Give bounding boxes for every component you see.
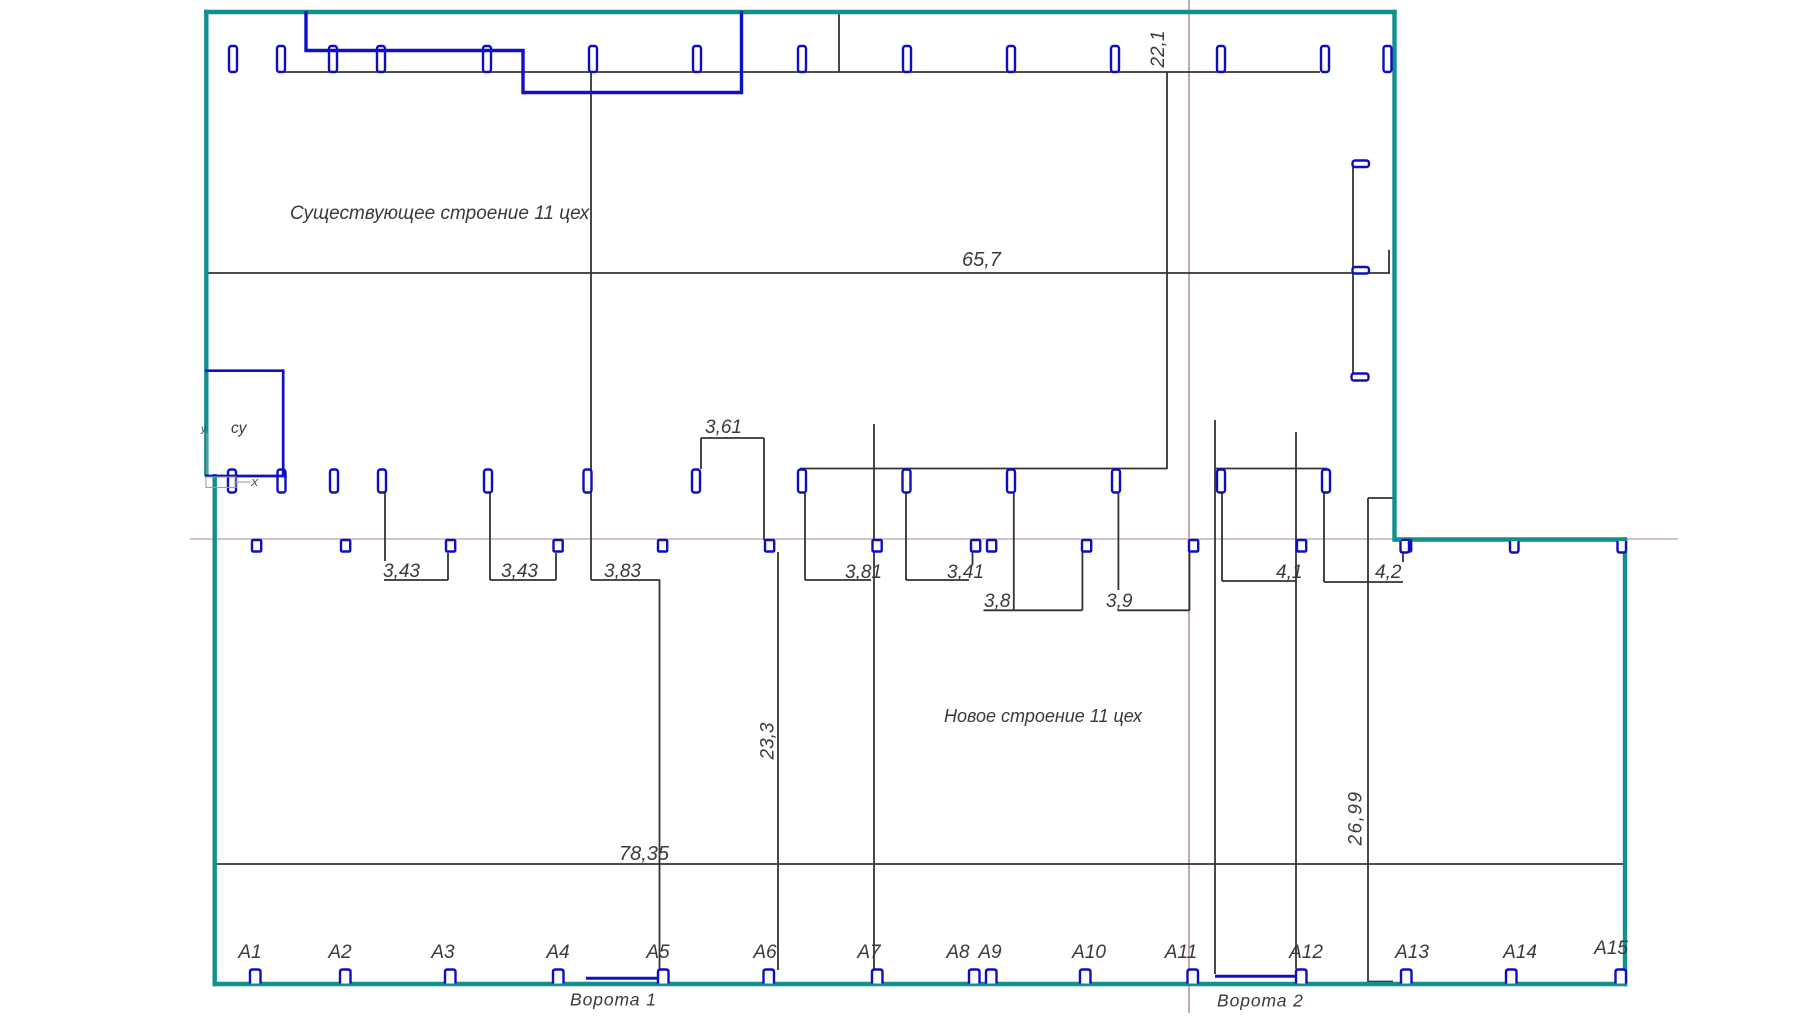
svg-text:65,7: 65,7: [962, 249, 1002, 271]
svg-text:су: су: [231, 420, 248, 437]
svg-text:3,83: 3,83: [604, 561, 641, 582]
svg-text:А9: А9: [977, 942, 1002, 963]
svg-text:3,41: 3,41: [947, 562, 984, 583]
svg-text:А10: А10: [1071, 942, 1106, 963]
svg-text:78,35: 78,35: [619, 843, 670, 865]
svg-text:23,3: 23,3: [758, 722, 779, 760]
svg-text:А4: А4: [545, 942, 569, 963]
svg-text:26,99: 26,99: [1346, 790, 1367, 846]
svg-text:4,2: 4,2: [1375, 562, 1402, 583]
svg-text:А3: А3: [430, 942, 455, 963]
svg-text:3,43: 3,43: [383, 561, 420, 582]
svg-text:Новое строение 11 цех: Новое строение 11 цех: [944, 706, 1143, 726]
svg-text:22,1: 22,1: [1148, 31, 1169, 69]
svg-text:3,81: 3,81: [845, 562, 882, 583]
svg-text:А6: А6: [752, 942, 777, 963]
svg-text:у: у: [200, 423, 207, 435]
svg-text:3,43: 3,43: [501, 561, 538, 582]
svg-text:А5: А5: [645, 942, 670, 963]
svg-text:Ворота 2: Ворота 2: [1217, 991, 1304, 1011]
svg-text:3,8: 3,8: [984, 591, 1011, 612]
svg-text:А1: А1: [237, 942, 261, 963]
svg-text:А15: А15: [1593, 938, 1628, 959]
svg-text:А8: А8: [945, 942, 970, 963]
svg-text:X: X: [250, 477, 259, 489]
svg-text:А7: А7: [856, 942, 882, 963]
svg-text:4,1: 4,1: [1276, 562, 1302, 583]
svg-text:А2: А2: [327, 942, 352, 963]
svg-text:А11: А11: [1164, 942, 1197, 963]
svg-text:А12: А12: [1288, 942, 1323, 963]
svg-text:3,61: 3,61: [705, 417, 742, 438]
svg-text:Существующее строение 11 цех: Существующее строение 11 цех: [290, 203, 591, 224]
svg-text:Ворота 1: Ворота 1: [570, 990, 657, 1010]
svg-text:А14: А14: [1502, 942, 1537, 963]
svg-text:А13: А13: [1394, 942, 1429, 963]
svg-text:3,9: 3,9: [1106, 591, 1133, 612]
